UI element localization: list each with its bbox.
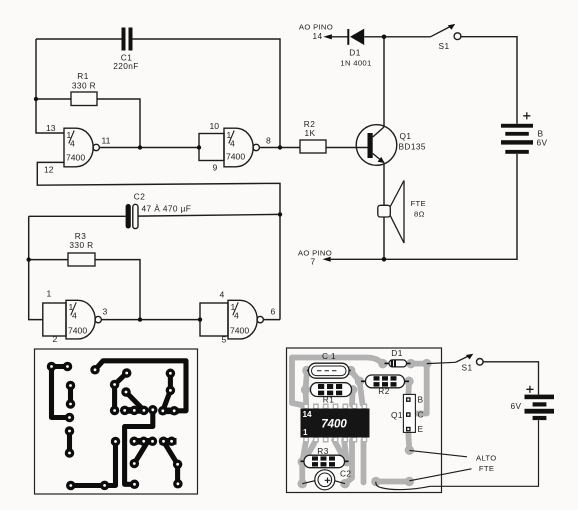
svg-text:C2: C2	[340, 469, 351, 479]
svg-text:FTE: FTE	[411, 199, 426, 208]
svg-text:R1: R1	[323, 394, 334, 404]
svg-text:7400: 7400	[68, 326, 87, 336]
svg-text:7400: 7400	[230, 326, 249, 336]
svg-text:Q1: Q1	[391, 410, 403, 420]
svg-text:C: C	[418, 410, 424, 420]
svg-text:7400: 7400	[66, 153, 85, 163]
svg-text:2: 2	[53, 334, 58, 344]
svg-text:R1: R1	[77, 71, 88, 81]
svg-text:8: 8	[266, 136, 271, 146]
svg-text:7400: 7400	[226, 152, 245, 162]
svg-text:1: 1	[47, 289, 52, 299]
svg-text:C 1: C 1	[322, 351, 336, 361]
svg-text:330 R: 330 R	[72, 81, 96, 91]
svg-text:BD135: BD135	[399, 142, 426, 152]
svg-text:220nF: 220nF	[113, 61, 139, 71]
svg-text:R3: R3	[317, 446, 328, 456]
svg-text:R2: R2	[378, 386, 389, 396]
svg-text:1: 1	[303, 428, 308, 437]
svg-text:4: 4	[220, 290, 225, 300]
svg-text:13: 13	[46, 123, 56, 133]
svg-text:D1: D1	[391, 348, 402, 358]
svg-text:11: 11	[102, 136, 111, 146]
svg-text:330 R: 330 R	[69, 240, 93, 250]
svg-text:12: 12	[44, 165, 54, 175]
svg-text:5: 5	[222, 335, 227, 345]
svg-text:8Ω: 8Ω	[414, 210, 425, 219]
svg-text:ALTO: ALTO	[476, 454, 497, 463]
svg-text:E: E	[418, 424, 424, 434]
svg-text:D1: D1	[349, 48, 360, 58]
svg-text:S1: S1	[462, 363, 473, 373]
svg-text:3: 3	[103, 307, 108, 317]
svg-text:1K: 1K	[305, 128, 316, 138]
svg-text:14: 14	[312, 31, 322, 41]
svg-text:10: 10	[210, 121, 220, 131]
svg-text:C2: C2	[134, 192, 145, 202]
svg-text:Q1: Q1	[400, 131, 412, 141]
svg-text:6V: 6V	[537, 138, 548, 148]
svg-text:6: 6	[271, 307, 276, 317]
svg-text:B: B	[418, 395, 424, 405]
svg-text:S1: S1	[439, 41, 450, 51]
svg-text:6V: 6V	[511, 401, 522, 411]
svg-text:14: 14	[303, 410, 313, 419]
svg-text:FTE: FTE	[479, 464, 494, 473]
svg-text:7: 7	[310, 257, 315, 267]
svg-text:7400: 7400	[321, 419, 347, 431]
svg-text:9: 9	[213, 163, 218, 173]
svg-text:1N 4001: 1N 4001	[340, 59, 371, 68]
svg-text:47 À 470 µF: 47 À 470 µF	[142, 204, 192, 214]
